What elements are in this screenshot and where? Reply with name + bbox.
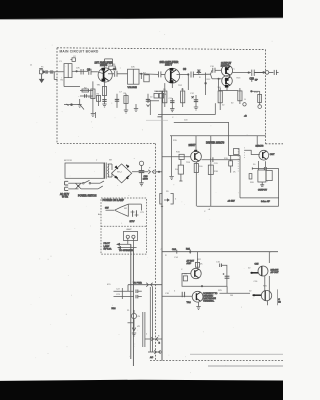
wire right edge (grey) (277, 289, 279, 305)
output transformer T2 (258, 161, 272, 186)
switch SW2 (lamp circuit) (106, 207, 122, 213)
svg-text:TR: TR (184, 273, 187, 275)
transistor Q7 (AF amp) (191, 268, 201, 278)
svg-text:+B 12V: +B 12V (228, 201, 236, 203)
wire bus to driver base (162, 156, 191, 158)
supply rail B- (156, 91, 230, 136)
capacitor C17 (loop right) (223, 273, 230, 278)
wire to output bases (211, 70, 222, 79)
capacitor C12 + ground (192, 95, 199, 110)
bottom faint scan lines (190, 353, 283, 355)
wire Q9 to Q10 (265, 252, 270, 300)
connector P4 (board edge) (128, 283, 162, 292)
resistor R7 (144, 75, 149, 82)
wire bias vertical + ground (169, 136, 173, 180)
svg-text:AF OUT: AF OUT (271, 271, 280, 274)
motor M (empty box) (65, 163, 104, 178)
svg-text:LAMP: LAMP (126, 228, 132, 231)
ground (R3) (91, 114, 95, 117)
wire loop to Q10 base (219, 286, 250, 293)
power on lamp box (dashed) (101, 198, 146, 254)
ground (input jack) (40, 74, 44, 83)
svg-text:VR: VR (137, 326, 140, 328)
wire lamp bus R (down) (132, 248, 134, 366)
svg-text:TO PWR: TO PWR (133, 282, 142, 284)
ground (Q8 emitter) (196, 302, 200, 309)
svg-text:POWER ON LAMP: POWER ON LAMP (103, 199, 125, 202)
svg-text:CERAMIC: CERAMIC (203, 294, 214, 297)
wire lamp leads (arrows) (117, 238, 137, 248)
wire +B bus (main vertical) (161, 91, 163, 360)
electrolytic capacitor C19 (139, 161, 145, 183)
resistor R4 (96, 95, 100, 106)
connector (bus bracket) (160, 194, 173, 205)
wire rail riser to R19 (228, 136, 240, 156)
terminal E1 (243, 103, 246, 106)
volume control VR1 (64, 64, 72, 78)
capacitor C16 (loop top) (220, 264, 222, 268)
resistor R3 (91, 81, 95, 113)
svg-text:AC: AC (150, 356, 153, 359)
transistor Q2 (165, 68, 180, 88)
wire mid vertical (239, 155, 241, 198)
wire bridge to C19 (132, 171, 148, 173)
ground (R6) (124, 110, 128, 113)
transistor Q10 (253, 290, 272, 300)
resistor R2 row (80, 89, 93, 92)
wire Q10 emitter (267, 301, 269, 306)
capacitor C23 (114, 295, 142, 299)
wire lamp bus L (down) (130, 244, 132, 359)
AC cord wires (twisted) (68, 183, 82, 189)
svg-text:10K: 10K (76, 68, 80, 70)
resistor R20 (small) (249, 174, 252, 179)
transistor Q8 (AF 2nd) (192, 291, 203, 302)
transformer T1 core (105, 163, 107, 179)
bootstrap wire + capacitor C20 (202, 157, 241, 162)
preamp section wire (supply) (162, 250, 278, 254)
svg-text:VOLUME: VOLUME (128, 87, 138, 89)
capacitor C11 + ground (170, 98, 174, 112)
ground (C19) (139, 183, 143, 186)
resistor R10 R11 (pair) (154, 93, 164, 98)
transistor Q5 (driver) (191, 150, 202, 162)
capacitor C21 (lamp) (131, 210, 139, 217)
svg-text:R5 30K: R5 30K (109, 64, 117, 66)
resistor R8 (163, 83, 167, 107)
svg-text:8V 0.3A: 8V 0.3A (104, 247, 112, 250)
svg-text:8ohm SP: 8ohm SP (261, 201, 271, 203)
svg-text:SR: SR (109, 159, 112, 161)
capacitor C18 (182, 292, 184, 297)
svg-text:2SB77: 2SB77 (165, 64, 173, 67)
small value labels (scan smudge texture) (30, 56, 268, 338)
transformer secondary leads (108, 164, 112, 177)
capacitor C5 row (80, 94, 93, 98)
wire VR2 to C6 (139, 73, 158, 79)
resistor R18 (208, 136, 213, 207)
wire to Q6 base (245, 136, 260, 155)
svg-text:1M: 1M (230, 295, 233, 297)
svg-text:MOTOR: MOTOR (64, 160, 72, 162)
svg-text:2SB77: 2SB77 (189, 145, 197, 147)
transistor Q9 (251, 266, 269, 276)
resistor R1 (bias, left) (64, 78, 80, 87)
capacitor C3 (89, 69, 98, 75)
main circuit board boundary (dashed) (57, 48, 283, 361)
scan noise (31, 31, 273, 373)
transformer T1 secondary winding (108, 164, 109, 177)
svg-text:DRIVER 2SB178: DRIVER 2SB178 (206, 142, 225, 145)
capacitor C4 (115, 71, 128, 77)
resistor R6 (124, 94, 128, 110)
resistor R19 (229, 155, 233, 172)
dotted shield line A (237, 149, 239, 173)
input jack J1 (39, 69, 44, 74)
resistor R13 (238, 88, 242, 104)
terminal (Q6 emitter) (264, 161, 267, 170)
wire pair to bottom connector (143, 287, 153, 352)
wire Q5 collector to top line (195, 136, 197, 151)
capacitor C9 (191, 72, 211, 78)
resistor R4b (Q1 emitter) (102, 81, 106, 107)
feedback loop wire (182, 265, 227, 287)
svg-text:AMP: AMP (187, 262, 192, 265)
capacitor C3a (81, 69, 83, 75)
resistor R14 (251, 91, 262, 105)
svg-text:AF 1ST: AF 1ST (187, 259, 195, 262)
power switch SW1 (83, 180, 105, 184)
pilot lamp PL1 (124, 231, 138, 240)
wire output loop (197, 167, 279, 206)
transistor Q3 (upper output) (221, 65, 232, 76)
svg-text:LAMP: LAMP (104, 245, 110, 248)
driver section top line (170, 135, 266, 137)
bottom black scan bar (0, 380, 283, 400)
svg-text:AC: AC (98, 213, 101, 216)
svg-text:CARTRIDGE: CARTRIDGE (203, 297, 216, 300)
connector P2 (speaker out, board edge) (254, 71, 273, 75)
node B (bus tick) (158, 117, 164, 207)
wire output node to C13 (233, 72, 251, 73)
connector P5b (board edge) (148, 350, 162, 354)
resistor R5 (109, 66, 115, 69)
capacitor C2 (above VR1) (71, 58, 76, 62)
svg-text:2SB75: 2SB75 (100, 64, 108, 67)
diode D1 (197, 70, 201, 74)
top black scan bar (0, 0, 283, 19)
node A (junction after VR1) (72, 71, 88, 72)
svg-text:50K: 50K (131, 67, 135, 69)
wire AC lower to transformer (81, 186, 103, 189)
svg-text:1000: 1000 (143, 178, 149, 180)
wire bias L (218, 78, 238, 90)
resistor R22 (195, 252, 199, 269)
dotted shield line B (244, 148, 246, 159)
capacitor C22 (114, 288, 142, 299)
ground (VR3) (132, 333, 136, 336)
svg-text:POWER SWITCH: POWER SWITCH (78, 195, 97, 197)
svg-text:TERMINAL: TERMINAL (203, 300, 215, 303)
resistor R16 (179, 154, 184, 159)
svg-text:50K: 50K (88, 97, 92, 99)
capacitor C10 (213, 68, 215, 73)
connector P1 (board edge) (45, 70, 57, 79)
svg-text:SR-2: SR-2 (117, 171, 123, 173)
connector P3 (power, board edge) (148, 170, 162, 174)
svg-text:OUT: OUT (270, 154, 275, 156)
capacitor C8 (146, 94, 159, 107)
ground (left mid) (67, 99, 96, 118)
capacitor C13 (252, 70, 263, 76)
tone control VR2 (boxed) (128, 69, 140, 84)
transistor Q6 (output) (259, 150, 269, 160)
capacitor C7 (emitter bypass) (115, 94, 119, 108)
connector P5a (board edge) (145, 337, 162, 341)
svg-text:60 Hz: 60 Hz (62, 196, 69, 198)
speaker jack J2 (252, 70, 279, 82)
wire input jack to board (44, 71, 64, 73)
wire lamp circuit (121, 204, 141, 217)
wire drop (C8 to rail) (134, 100, 151, 115)
resistor R12 (218, 88, 222, 110)
wire bus to Q8 base (162, 295, 192, 297)
svg-text:2SB178: 2SB178 (256, 146, 265, 148)
resistor R19b (234, 149, 240, 155)
capacitor C6 (159, 71, 165, 77)
lamp LP2 (circle) (128, 310, 137, 323)
terminal E2 (258, 105, 262, 109)
transistor Q1 (98, 59, 113, 82)
resistor R9 (181, 88, 185, 107)
svg-text:OUTPUT: OUTPUT (258, 190, 268, 192)
transistor Q4 (lower output) (222, 76, 233, 88)
resistor R16b (178, 160, 183, 182)
svg-text:MAIN CIRCUIT BOARD: MAIN CIRCUIT BOARD (60, 50, 99, 54)
wire Q1 collector (108, 73, 114, 75)
wire drop (mid) (205, 73, 207, 96)
resistor R17 (Q5 emitter) (194, 162, 198, 206)
wire Q2 collector (177, 74, 190, 90)
variable resistor VR3 (arrow down) (132, 319, 136, 331)
supply rail (left mid) (64, 104, 84, 110)
bridge rectifier D2-D5 (112, 164, 132, 183)
svg-text:117V: 117V (130, 221, 135, 223)
AC plug prongs (65, 181, 69, 190)
resistor R23 (feedback) (183, 276, 187, 281)
svg-text:SR: SR (124, 208, 127, 210)
